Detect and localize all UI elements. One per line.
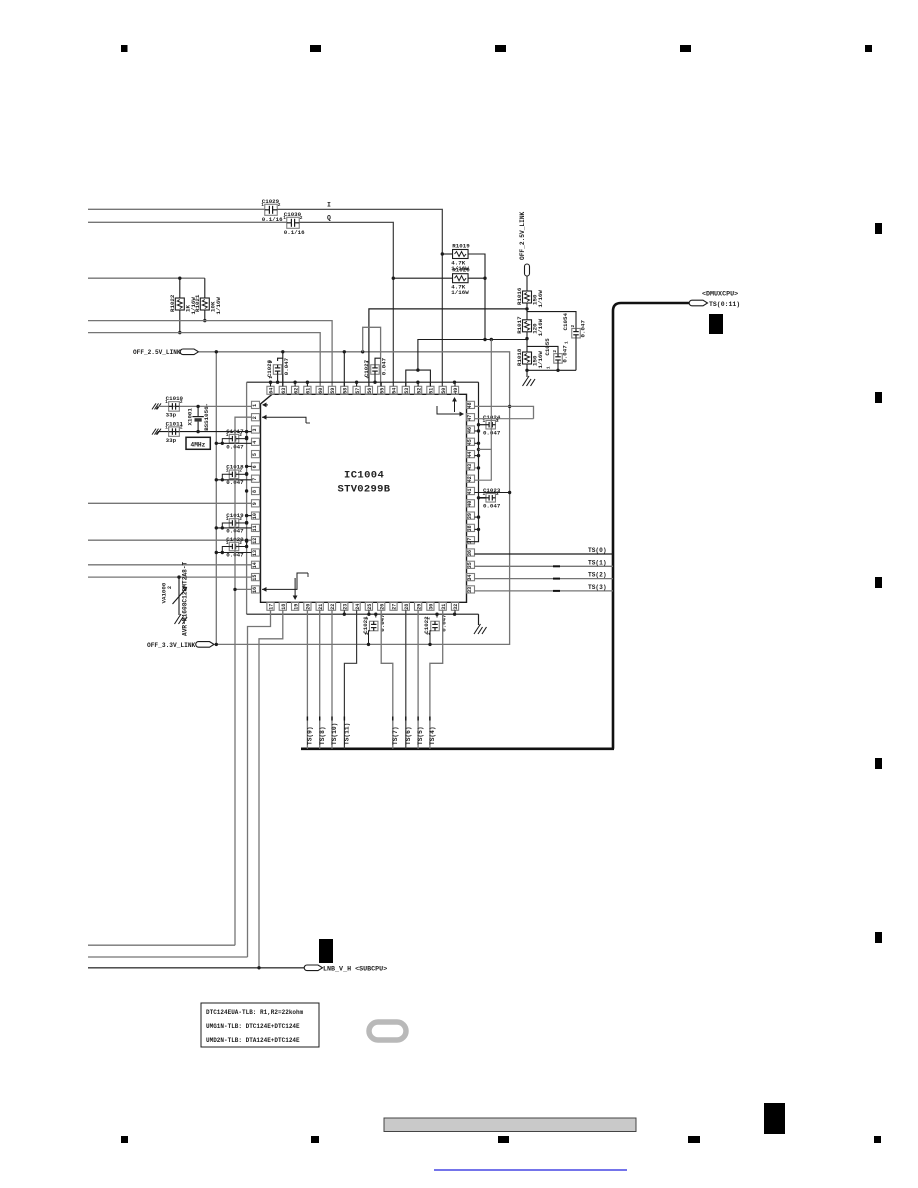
footer blue rule (434, 1169, 627, 1171)
svg-text:37: 37 (467, 538, 473, 544)
film alignment block bottom-right (764, 1103, 785, 1134)
wire pin39 stub (475, 516, 479, 518)
wire pin47 to C1024 (475, 418, 534, 420)
film alignment block LNB area (319, 939, 333, 963)
svg-text:14: 14 (252, 562, 258, 568)
wire I input (88, 208, 265, 210)
capacitor C1018 (247, 465, 252, 467)
wire Q input (88, 221, 287, 223)
wire C1023 pin1 to gnd (479, 497, 486, 499)
svg-text:32: 32 (453, 604, 459, 610)
svg-text:0.047: 0.047 (440, 614, 447, 632)
wire pin14 net (88, 564, 252, 566)
svg-text:C1024: C1024 (483, 414, 501, 421)
svg-text:0.047: 0.047 (483, 429, 501, 436)
svg-text:1/16W: 1/16W (537, 351, 544, 369)
wire pin38 stub (475, 528, 479, 530)
svg-text:34: 34 (467, 575, 473, 581)
link J OFF_2.5V_LINK (180, 349, 198, 355)
bus TS horizontal bottom (301, 747, 614, 750)
capacitor C1055 (554, 354, 563, 364)
svg-text:7: 7 (252, 478, 258, 481)
wire pin45 stub (475, 442, 479, 444)
wire pin3 net (158, 431, 252, 433)
svg-text:C1055: C1055 (544, 338, 551, 356)
svg-text:1/16W: 1/16W (537, 318, 544, 336)
resistor R1021 10K (204, 278, 206, 298)
svg-text:IC1004: IC1004 (344, 470, 384, 482)
svg-text:33: 33 (467, 587, 473, 593)
svg-text:23: 23 (343, 604, 349, 610)
wire TS9 pin20 (306, 610, 308, 749)
svg-text:TS(3): TS(3) (588, 584, 607, 591)
svg-text:43: 43 (467, 464, 473, 470)
svg-text:59: 59 (330, 388, 336, 394)
resistor R1017 120 (523, 320, 532, 332)
ground bottom rail (478, 614, 480, 625)
varistor VA1000 (178, 577, 180, 588)
svg-text:48: 48 (467, 402, 473, 408)
wire J3 bottom rail (527, 369, 576, 371)
svg-text:3: 3 (252, 428, 258, 431)
wire TS6 pin28 (405, 610, 407, 749)
svg-text:2: 2 (570, 324, 576, 327)
svg-text:51: 51 (429, 388, 435, 394)
svg-text:1/16W: 1/16W (451, 289, 469, 296)
capacitor C1027 (371, 365, 380, 375)
svg-text:OFF_2.5V_LINK: OFF_2.5V_LINK (133, 349, 181, 356)
capacitor C1054 (572, 328, 581, 338)
wire gnd rail bottom (247, 613, 479, 615)
link bus to DMUXCPU (689, 300, 707, 306)
IC1004 right pins 48..33 (467, 401, 475, 408)
svg-text:C1028: C1028 (266, 359, 273, 377)
wire R1020 junction down (468, 277, 485, 279)
svg-text:26: 26 (379, 604, 385, 610)
svg-text:0.047: 0.047 (561, 345, 568, 363)
svg-text:46: 46 (467, 427, 473, 433)
wire gnd rail top (247, 381, 479, 383)
svg-text:TS(11): TS(11) (344, 723, 351, 745)
svg-text:25: 25 (367, 604, 373, 610)
svg-text:57: 57 (355, 388, 361, 394)
wire pin56 to J1 rail (369, 309, 527, 386)
svg-text:55: 55 (379, 388, 385, 394)
wire bus A to left edge (88, 944, 235, 946)
svg-text:1: 1 (545, 366, 551, 369)
footer gray bar (384, 1118, 636, 1132)
svg-text:1: 1 (252, 404, 258, 407)
ground VA1000 (175, 614, 188, 624)
svg-text:35: 35 (467, 562, 473, 568)
wire Q tap to R1020 (393, 277, 452, 279)
svg-text:10: 10 (252, 513, 258, 519)
svg-text:TS(1): TS(1) (588, 559, 607, 566)
svg-text:60: 60 (318, 388, 324, 394)
svg-text:Q: Q (327, 215, 331, 222)
svg-text:53: 53 (404, 388, 410, 394)
svg-text:42: 42 (467, 476, 473, 482)
svg-text:STV0299B: STV0299B (338, 484, 391, 496)
svg-text:AVR-M1608C128MT2A8-T: AVR-M1608C128MT2A8-T (182, 561, 189, 636)
svg-text:X1001: X1001 (187, 408, 194, 426)
svg-text:27: 27 (392, 604, 398, 610)
node J3 to ground (526, 364, 528, 377)
wire pin41 supply (475, 492, 510, 494)
node J1 (526, 303, 528, 320)
svg-text:4MHz: 4MHz (191, 441, 206, 448)
link J LNB_V_H (304, 965, 322, 971)
svg-text:R1018: R1018 (516, 348, 523, 366)
wire Q to pin 54 (300, 222, 394, 386)
svg-text:DTC124EUA-TLB: R1,R2=22kohm: DTC124EUA-TLB: R1,R2=22kohm (206, 1009, 304, 1016)
svg-text:5: 5 (252, 453, 258, 456)
svg-text:TS(0:11): TS(0:11) (709, 301, 740, 308)
wire TS8 pin21 (319, 610, 321, 749)
IC1004 left pins 1..16 (252, 401, 260, 408)
wire OFF_2.5V rail (199, 352, 510, 645)
svg-text:11: 11 (252, 525, 258, 531)
IC U IC1004 STV0299B body (261, 394, 467, 602)
IC1004 internal pin-49 marker (454, 401, 456, 412)
svg-text:0.047: 0.047 (379, 614, 386, 632)
svg-text:TS(6): TS(6) (405, 726, 412, 745)
wire TS7 pin26 (381, 610, 393, 749)
svg-text:44: 44 (467, 452, 473, 458)
svg-text:0.047: 0.047 (380, 357, 387, 375)
ground R chain (523, 376, 536, 386)
capacitor C1020 (88, 539, 252, 541)
svg-text:R1021: R1021 (194, 294, 201, 312)
crystal X1001 (197, 406, 199, 417)
svg-text:OFF_2.5V_LINK: OFF_2.5V_LINK (519, 211, 526, 260)
svg-text:24: 24 (355, 604, 361, 610)
capacitor C1011 33p (169, 427, 180, 437)
IC1004 internal pin-16 marker (262, 573, 308, 589)
svg-text:TS(7): TS(7) (392, 726, 399, 745)
capacitor C1010 33p (169, 402, 180, 412)
svg-text:29: 29 (416, 604, 422, 610)
capacitor C1030 (287, 217, 300, 228)
bottom pin stubs (344, 610, 455, 614)
svg-text:50: 50 (441, 388, 447, 394)
wire C1024 pin1 to gnd (479, 424, 486, 426)
wire bus B to left edge (88, 956, 248, 958)
wire C1027 pin2 hook (375, 358, 381, 365)
svg-text:8: 8 (252, 490, 258, 493)
wire pin48 supply (475, 406, 534, 418)
svg-text:TS(4): TS(4) (429, 726, 436, 745)
svg-text:1/16W: 1/16W (215, 297, 222, 315)
capacitor C1022 (436, 614, 438, 617)
registration marks bottom (121, 1136, 128, 1143)
resistor R1022 1K (179, 278, 181, 298)
IC1004 bottom pins 17..32 (267, 602, 275, 610)
svg-text:UMD2N-TLB: DTA124E+DTC124E: UMD2N-TLB: DTA124E+DTC124E (206, 1037, 300, 1044)
svg-text:1/16W: 1/16W (537, 290, 544, 308)
top pin stubs (271, 374, 456, 386)
svg-text:TS(5): TS(5) (417, 726, 424, 745)
svg-text:0.047: 0.047 (483, 503, 501, 510)
svg-text:TS(0): TS(0) (588, 547, 607, 554)
svg-text:2: 2 (167, 586, 173, 589)
wire link to R1016 (526, 276, 528, 291)
svg-text:C1023: C1023 (483, 487, 501, 494)
wire TS0 pin36 (475, 553, 614, 555)
svg-text:49: 49 (453, 388, 459, 394)
wire pin55 bracket (363, 327, 381, 386)
svg-text:4: 4 (252, 441, 258, 444)
wire pin16 tap (235, 588, 252, 590)
svg-text:2: 2 (252, 416, 258, 419)
svg-text:0.047: 0.047 (283, 357, 290, 375)
wire top left feed (88, 277, 205, 279)
wire gnd rail left side down (246, 382, 248, 614)
ground C1011 (152, 429, 161, 435)
wire TS11 pin24 (344, 610, 356, 749)
svg-text:16: 16 (252, 587, 258, 593)
IC1004 internal pin-1 marker (263, 404, 268, 406)
svg-text:64: 64 (269, 388, 275, 394)
svg-text:38: 38 (467, 525, 473, 531)
svg-text:28: 28 (404, 604, 410, 610)
svg-text:56: 56 (367, 388, 373, 394)
svg-text:TS(8): TS(8) (319, 726, 326, 745)
capacitor C1021 (375, 614, 377, 617)
svg-text:C1030: C1030 (284, 211, 302, 218)
logo stadium mark (369, 1022, 406, 1040)
svg-text:2: 2 (552, 350, 558, 353)
wire pin18 down-left (259, 610, 283, 968)
svg-text:45: 45 (467, 439, 473, 445)
svg-text:C1010: C1010 (166, 395, 184, 402)
oscillator frequency box 4MHz (186, 437, 210, 449)
resistor R1020 4.7K (453, 274, 469, 283)
svg-text:C1027: C1027 (363, 359, 370, 377)
svg-text:62: 62 (293, 388, 299, 394)
wire pin44 stub (475, 455, 479, 457)
capacitor C1028 (273, 365, 282, 375)
capacitor C1017 (247, 431, 252, 433)
svg-text:I: I (327, 202, 331, 209)
svg-text:C1011: C1011 (166, 420, 184, 427)
svg-text:C1022: C1022 (423, 616, 430, 634)
wire pin15 net (88, 576, 252, 578)
IC1004 internal pin-48 marker (437, 406, 460, 414)
svg-text:58: 58 (343, 388, 349, 394)
svg-text:41: 41 (467, 488, 473, 494)
svg-text:R1022: R1022 (169, 294, 176, 312)
ground C1010 (152, 403, 161, 409)
wire x491 drop (490, 340, 492, 450)
wire pin60 net (88, 333, 320, 387)
wire pins42-44 bracket (475, 449, 492, 480)
svg-text:TS(10): TS(10) (331, 723, 338, 745)
svg-text:R1016: R1016 (516, 287, 523, 305)
svg-text:C1021: C1021 (362, 616, 369, 634)
wire pin46 stub (475, 430, 479, 432)
link J OFF_3.3V_LINK (196, 642, 214, 648)
wire C1023 pin2 hook (496, 493, 498, 494)
TS wire ticks (307, 717, 430, 721)
svg-text:36: 36 (467, 550, 473, 556)
wire R1019 to junction (468, 254, 485, 278)
svg-text:13: 13 (252, 550, 258, 556)
svg-text:R1020: R1020 (452, 267, 470, 274)
svg-text:22: 22 (330, 604, 336, 610)
wire pin58 stub (343, 352, 345, 387)
svg-text:TS(2): TS(2) (588, 572, 607, 579)
svg-text:52: 52 (416, 388, 422, 394)
registration marks right edge (875, 223, 882, 234)
svg-text:1: 1 (563, 341, 569, 344)
svg-text:21: 21 (318, 604, 324, 610)
IC1004 top pins 64..49 (267, 386, 275, 394)
svg-text:0.047: 0.047 (579, 320, 586, 338)
svg-text:17: 17 (269, 604, 275, 610)
svg-text:VA1000: VA1000 (160, 582, 167, 603)
capacitor C1019 (247, 515, 252, 517)
wire TS10 pin22 (331, 610, 333, 749)
IC1004 internal pin-2 marker (262, 417, 306, 423)
capacitor C1029 (265, 204, 278, 215)
registration marks top (121, 45, 128, 52)
svg-text:40: 40 (467, 501, 473, 507)
svg-text:C1054: C1054 (562, 313, 569, 331)
svg-text:19: 19 (293, 604, 299, 610)
wire y339 rail to R chain (491, 339, 527, 341)
wire pin43 stub (475, 467, 479, 469)
svg-text:15: 15 (252, 575, 258, 581)
svg-text:61: 61 (306, 388, 312, 394)
svg-text:<DMUXCPU>: <DMUXCPU> (702, 291, 738, 299)
resistor R1018 150 (523, 352, 532, 364)
svg-text:9: 9 (252, 502, 258, 505)
svg-text:BSS1056-: BSS1056- (203, 403, 210, 431)
svg-text:12: 12 (252, 538, 258, 544)
node J2 (526, 332, 528, 352)
svg-text:63: 63 (281, 388, 287, 394)
svg-text:33p: 33p (166, 437, 177, 444)
wire LNB_V_H (88, 967, 307, 969)
svg-text:6: 6 (252, 465, 258, 468)
resistor R1019 4.7K (453, 250, 469, 259)
svg-text:0.1/16: 0.1/16 (284, 229, 305, 236)
svg-text:39: 39 (467, 513, 473, 519)
svg-text:30: 30 (429, 604, 435, 610)
svg-text:31: 31 (441, 604, 447, 610)
wire bracket to y339 rail (418, 340, 491, 371)
svg-text:20: 20 (306, 604, 312, 610)
bus TS vertical (613, 303, 692, 749)
wire pin59 net (88, 321, 332, 387)
wire TS3 pin33 (475, 590, 614, 592)
svg-text:54: 54 (392, 388, 398, 394)
wire pin17 down-left (248, 610, 271, 957)
resistor R1016 150 (523, 291, 532, 303)
svg-text:LNB_V_H <SUBCPU>: LNB_V_H <SUBCPU> (323, 966, 387, 974)
svg-text:33p: 33p (166, 412, 177, 419)
capacitor C1023 (486, 494, 496, 503)
wire pins 51-53 bracket (406, 370, 431, 386)
wire pin63 net C1028 (278, 352, 283, 361)
svg-text:18: 18 (281, 604, 287, 610)
film alignment block DMUX area (709, 314, 723, 334)
wire pin1 net (158, 405, 252, 407)
wire pin9 net (88, 502, 252, 504)
wire TS4 pin31 (430, 610, 443, 749)
wire TS5 pin29 (417, 610, 419, 749)
svg-text:OFF_3.3V_LINK: OFF_3.3V_LINK (147, 642, 196, 649)
IC1004 internal pin-19 marker (294, 578, 296, 596)
svg-text:TS(9): TS(9) (307, 726, 314, 745)
svg-text:R1017: R1017 (516, 316, 523, 334)
wire I to pin 50 (278, 209, 443, 386)
svg-text:47: 47 (467, 415, 473, 421)
wire I tap to R1019 (442, 253, 452, 255)
wire gnd rail right side down (467, 382, 479, 542)
wire C1055 branch (527, 346, 558, 353)
wire C1027 pin1 to gnd rail (374, 374, 376, 382)
wire pin2 net to long vertical (235, 417, 252, 945)
link J OFF_2.5V vertical (525, 264, 530, 276)
wire TS2 pin34 (475, 578, 614, 580)
svg-text:UMG1N-TLB: DTC124E+DTC124E: UMG1N-TLB: DTC124E+DTC124E (206, 1023, 300, 1030)
wire to y339 rail (484, 278, 486, 339)
svg-text:C1029: C1029 (262, 198, 280, 205)
svg-text:R1019: R1019 (452, 243, 470, 250)
wire TS1 pin35 (475, 565, 614, 567)
note table transistor substitutions (201, 1003, 319, 1047)
wire C1054 branch (527, 312, 576, 329)
capacitor C1024 (486, 420, 496, 429)
